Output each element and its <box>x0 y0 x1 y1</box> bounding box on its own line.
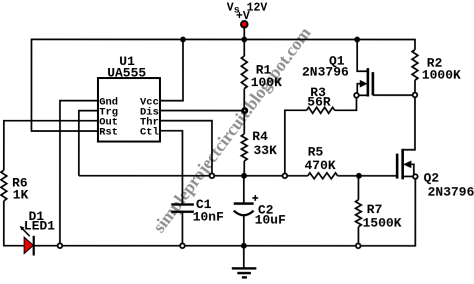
label C2 <box>258 203 274 218</box>
svg-text:470K: 470K <box>304 158 335 173</box>
label Q1 <box>329 54 345 69</box>
pin label Dis <box>140 106 159 118</box>
node Q2 source terminal <box>413 174 418 179</box>
value 10uF <box>255 213 286 228</box>
value 1K <box>13 188 29 203</box>
svg-text:+V: +V <box>236 10 250 23</box>
value 100K <box>251 75 282 90</box>
wire R6 to bottom-left corner <box>4 201 25 246</box>
svg-text:1500K: 1500K <box>363 216 402 231</box>
transistor Q2 2N3796 depletion MOSFET <box>397 149 415 180</box>
svg-text:56R: 56R <box>307 95 331 110</box>
wire top rail with Rst connection and R2/Q2 drain column <box>31 39 415 149</box>
wire Dis pin 7 stub <box>160 110 245 112</box>
svg-text:10uF: 10uF <box>255 213 286 228</box>
pin label Trg <box>99 106 118 118</box>
wire R7 bottom lead <box>357 227 359 246</box>
resistor R4 <box>241 134 247 161</box>
wire C2 bottom lead <box>243 215 245 245</box>
svg-text:2N3796: 2N3796 <box>302 65 349 80</box>
node R2 bottom / Q1 gate terminal <box>413 93 418 98</box>
pin label Gnd <box>99 96 118 108</box>
resistor R5 <box>308 173 338 179</box>
U1 value label UA555 <box>107 65 146 80</box>
svg-text:1000K: 1000K <box>422 68 461 83</box>
watermark <box>149 23 315 236</box>
svg-text:Ctl: Ctl <box>140 127 159 139</box>
label R6 <box>12 175 28 190</box>
pin label Vcc <box>140 96 159 108</box>
resistor R2 <box>412 50 418 81</box>
value 56R <box>307 95 331 110</box>
svg-text:2N3796: 2N3796 <box>428 185 474 200</box>
label C1 <box>196 197 212 212</box>
C2 polarity plus sign <box>252 195 258 201</box>
resistor R6 <box>1 170 7 201</box>
wire R3 branch <box>285 110 307 176</box>
capacitor C2 polarized plates <box>234 204 254 216</box>
wire R3 to Q1 source node <box>335 95 357 110</box>
label R1 <box>256 63 272 78</box>
wire Thr pin 6 down to mid net <box>160 121 212 176</box>
svg-text:R4: R4 <box>252 129 268 144</box>
label R4 <box>252 129 268 144</box>
capacitor C1 plates <box>171 204 194 245</box>
wire R1 bottom to R4 top <box>243 89 245 134</box>
wire Ctl pin 5 to C1 <box>160 131 183 204</box>
label R5 <box>308 145 324 160</box>
wire mid net to Q2 gate <box>338 175 398 177</box>
node junction Vcc column / top rail <box>180 37 186 43</box>
pin label Out <box>99 117 118 129</box>
node junction R4 C2 mid net <box>241 173 247 179</box>
label R2 <box>427 56 443 71</box>
supply label Vs 12V <box>227 2 268 17</box>
U1 reference label <box>119 54 135 69</box>
diode D1 LED1 <box>20 226 34 256</box>
wire Gnd pin 1 to bottom rail <box>60 101 98 246</box>
op-amp U1 UA555 timer IC body <box>98 78 160 142</box>
pin label Thr <box>140 117 159 129</box>
wire supply stub <box>243 26 245 39</box>
node junction Q1 drain / top rail <box>354 37 360 43</box>
label R3 <box>310 85 326 100</box>
node junction R5 R7 Q2 gate <box>356 173 362 179</box>
transistor Q1 2N3796 depletion MOSFET <box>356 40 415 97</box>
value 33K <box>253 143 277 158</box>
supply label +V <box>236 10 250 23</box>
node Dis terminal on R1-R4 junction <box>243 108 247 112</box>
wire R7 top lead <box>357 176 359 200</box>
svg-text:UA555: UA555 <box>107 65 146 80</box>
wire R1 top lead <box>243 39 245 56</box>
wire C2 top lead <box>243 176 245 204</box>
label Q2 <box>424 171 440 186</box>
node Q1 source terminal <box>354 93 359 98</box>
wire bottom ground rail <box>34 176 416 245</box>
svg-text:100K: 100K <box>251 75 282 90</box>
svg-text:LED1: LED1 <box>24 219 55 234</box>
svg-text:10nF: 10nF <box>193 209 224 224</box>
resistor R3 <box>307 107 335 113</box>
resistor R1 <box>241 56 247 89</box>
wire Trg pin 2 down to mid net <box>79 111 98 176</box>
wire R4 bottom lead <box>243 161 245 176</box>
resistor R7 <box>356 200 362 227</box>
node R3 branch terminal on mid net <box>283 173 288 178</box>
wire Vcc pin 8 to top rail <box>160 39 183 100</box>
wire mid net left section <box>79 175 308 177</box>
label D1 <box>29 209 45 224</box>
pin label Rst <box>99 127 118 139</box>
node junction C2 ground rail <box>241 243 247 249</box>
node R7 terminal on bottom rail <box>356 244 361 249</box>
node C1 terminal on bottom rail <box>180 243 185 248</box>
svg-text:1K: 1K <box>13 188 29 203</box>
svg-text:33K: 33K <box>253 143 277 158</box>
pin label Ctl <box>140 127 159 139</box>
node junction supply / top rail <box>241 37 247 43</box>
value 470K <box>304 158 335 173</box>
svg-text:Rst: Rst <box>99 127 118 139</box>
supply terminal +V red <box>241 21 248 28</box>
label R7 <box>367 202 383 217</box>
value 10nF <box>193 209 224 224</box>
value 2N3796 for Q1 <box>302 65 349 80</box>
label LED1 <box>24 219 55 234</box>
ground symbol <box>232 246 257 278</box>
node Gnd terminal on bottom rail <box>58 243 63 248</box>
value 2N3796 for Q2 <box>428 185 474 200</box>
svg-text:Q2: Q2 <box>424 171 440 186</box>
node Thr terminal on mid net <box>210 173 215 178</box>
value 1500K <box>363 216 402 231</box>
wire Out pin 3 to R6 <box>4 121 98 171</box>
value 1000K <box>422 68 461 83</box>
